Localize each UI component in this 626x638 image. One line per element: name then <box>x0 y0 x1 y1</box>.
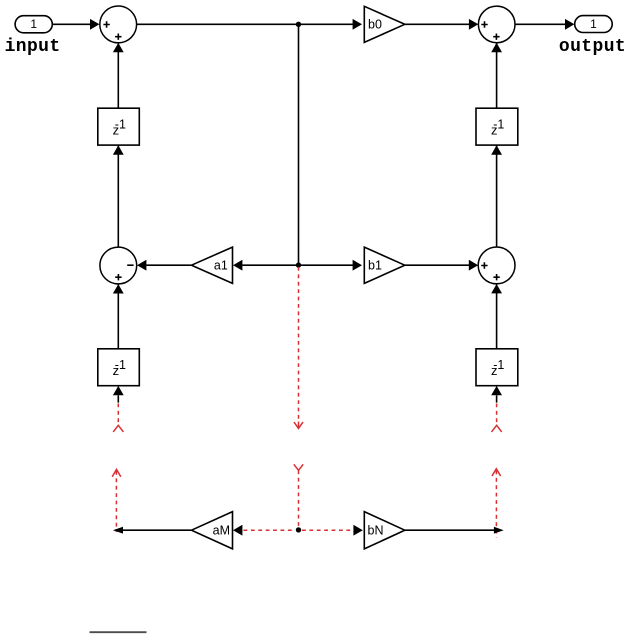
wire S2 to output port <box>515 19 574 30</box>
red dashed wire node B down <box>298 267 300 421</box>
red dashed arrow up (lower-right continuation) <box>492 469 501 538</box>
gain b1 <box>364 247 405 283</box>
wire node A to gain b0 <box>299 19 363 30</box>
wire D4 up to S4, arrow into S4 bottom <box>491 284 502 349</box>
red open chevron up (cut mark, left column) <box>113 425 123 432</box>
gain a1 <box>192 247 233 283</box>
wire S3 up to delay D1 (left column), arrow into S1 <box>113 43 124 108</box>
sum S4 <box>478 247 515 284</box>
sum S1 <box>100 6 137 43</box>
red dashed wire node C to aM <box>244 529 296 531</box>
gain b0 <box>364 6 405 42</box>
wire S4 to D3, arrow into D3 bottom <box>491 145 502 247</box>
input port 1 <box>15 16 52 33</box>
wire a1 output into S3, arrow into S3 right <box>137 260 192 271</box>
wire S1 to node A <box>137 23 299 25</box>
red chevron down + dashed wire to node C (middle column lower) <box>294 464 303 527</box>
wire b0 to sum S2 <box>405 19 479 30</box>
wire S3 to D1, arrow into D1 bottom <box>113 145 124 247</box>
node B junction <box>296 262 301 267</box>
gain aM <box>192 512 233 549</box>
svg-text:-1: -1 <box>493 117 504 131</box>
red dashed arrow up (lower-left continuation) <box>112 469 121 532</box>
output port 1 <box>575 16 613 33</box>
wire node B to a1, arrow into a1 right edge <box>233 260 299 271</box>
wire aM output leftward, arrow at left end <box>113 527 192 534</box>
svg-text:1: 1 <box>30 17 37 31</box>
arrow into bN left edge <box>353 525 362 536</box>
delay D1 z-1 <box>98 108 140 145</box>
svg-text:b1: b1 <box>368 259 382 273</box>
gain bN <box>364 512 405 549</box>
svg-text:aM: aM <box>213 523 230 537</box>
svg-text:bN: bN <box>368 523 384 537</box>
arrow into D2 bottom with stem <box>113 386 124 403</box>
arrow into D4 bottom with stem <box>491 386 502 403</box>
sum S3 <box>100 247 137 284</box>
svg-text:-1: -1 <box>493 358 504 372</box>
node C junction <box>296 527 301 532</box>
svg-text:1: 1 <box>590 17 597 31</box>
svg-text:-1: -1 <box>115 117 126 131</box>
wire node B to b1 <box>299 260 363 271</box>
svg-text:b0: b0 <box>368 17 382 31</box>
delay D3 z-1 <box>476 108 518 145</box>
wire input to sum S1 <box>52 19 99 30</box>
wire node A down to node B (middle column) <box>298 24 300 265</box>
arrow into aM right edge <box>233 525 242 536</box>
svg-text:input: input <box>5 37 61 57</box>
svg-text:a1: a1 <box>214 259 228 273</box>
red dashed wire below D2 <box>117 404 119 423</box>
wire bN output rightward, arrow at right end <box>405 527 504 534</box>
delay D4 z-1 <box>476 349 518 386</box>
red arrowhead down (middle column) <box>294 422 303 428</box>
wire D2 up to S3, arrow into S3 bottom <box>113 284 124 349</box>
gray rule bottom left <box>90 631 147 633</box>
node A junction <box>296 22 301 27</box>
svg-text:-1: -1 <box>115 358 126 372</box>
delay D2 z-1 <box>98 349 140 386</box>
wire S4 up to delay D3, arrow into S2 bottom <box>491 43 502 108</box>
red open chevron up (cut mark, right column) <box>492 425 502 432</box>
red dashed wire below D4 <box>496 404 498 423</box>
sum S2 <box>478 6 515 43</box>
svg-text:output: output <box>559 37 626 57</box>
red dashed wire node C to bN <box>302 529 352 531</box>
wire b1 to S4, arrow into S4 left <box>405 260 478 271</box>
